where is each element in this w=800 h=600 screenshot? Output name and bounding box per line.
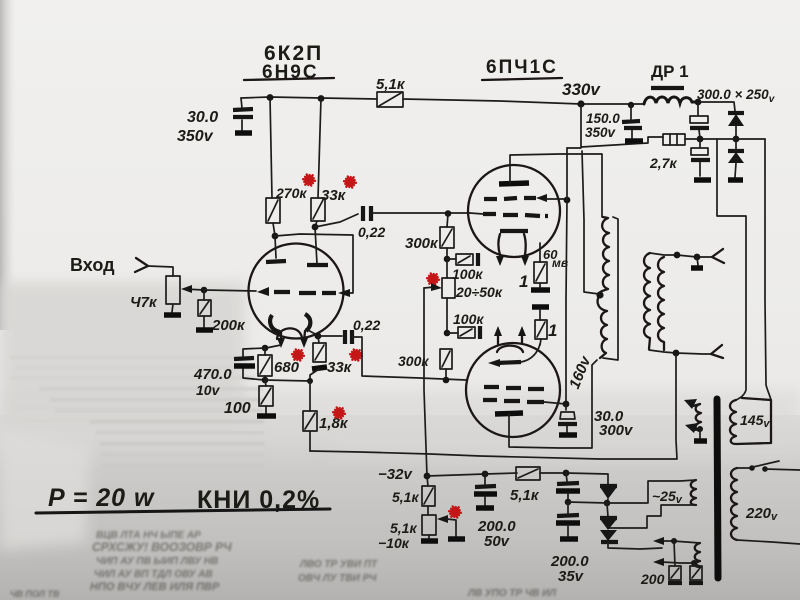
svg-text:ДР 1: ДР 1 <box>651 62 689 81</box>
node after choke <box>695 99 702 106</box>
wire C4 to V3 grid (drop) <box>352 337 466 380</box>
plate bar V3 <box>495 413 523 414</box>
svg-text:1: 1 <box>519 272 528 291</box>
svg-text:0,22: 0,22 <box>353 317 380 333</box>
wire direct-coupling loop <box>275 234 353 293</box>
node cathode2 <box>315 333 322 340</box>
wire 220v top + switch <box>737 467 750 469</box>
wire R8 to 1,8k <box>310 369 319 381</box>
svg-text:ОВЧ ЛУ ТВИ РЧ: ОВЧ ЛУ ТВИ РЧ <box>298 573 377 584</box>
tube V3 envelope <box>466 343 560 437</box>
cathode hooks V1 <box>270 315 280 332</box>
wire B+ center tap feed <box>582 151 599 294</box>
ground stub heater top <box>699 429 701 439</box>
wire secondary top <box>650 253 712 257</box>
potentiometer R19 5,1k <box>422 515 436 535</box>
red asterisk near 1,8k <box>333 407 345 418</box>
svg-text:200к: 200к <box>211 317 246 334</box>
grid dashes V2 <box>483 214 548 216</box>
wire wiper to ground <box>447 519 456 536</box>
ground under C10 <box>476 505 494 511</box>
svg-text:ЛВ УПО ТР ЧВ ИЛ: ЛВ УПО ТР ЧВ ИЛ <box>467 588 557 599</box>
diode D4 <box>607 503 608 517</box>
wire cathode2 to C4 <box>306 329 317 335</box>
node secondary bottom <box>673 350 680 357</box>
wire R5 to plate2 <box>315 221 317 264</box>
svg-text:30.0: 30.0 <box>187 109 218 126</box>
ground stub secondary <box>697 257 698 265</box>
node heater bottom b <box>691 560 697 566</box>
ground under R1 <box>172 304 173 312</box>
heater winding top (left of core) <box>696 404 701 431</box>
flying arrow heater top b <box>694 429 700 430</box>
wiper arrow R19 <box>440 518 447 520</box>
25v winding <box>691 480 696 505</box>
svg-text:100к: 100к <box>453 311 484 327</box>
svg-text:33к: 33к <box>327 359 353 376</box>
plate bar V1a <box>266 261 286 262</box>
node doubler mid (bias) <box>604 500 611 507</box>
plate bar V2 <box>499 183 529 184</box>
arrow into grid of V1 <box>257 287 269 296</box>
resistor R20 5,1k (bias rail) <box>516 467 540 480</box>
resistor R7 100 <box>265 380 266 386</box>
grid dashes V3 <box>484 387 544 389</box>
svg-text:350v: 350v <box>585 125 617 140</box>
svg-text:5,1к: 5,1к <box>392 489 419 505</box>
node secondary top a <box>674 252 681 259</box>
wire 680 node to 1,8k <box>265 380 310 381</box>
underline under 6ПЧ1С <box>482 78 562 80</box>
wire mid node line y139 <box>700 138 765 140</box>
tube V2 envelope <box>468 165 560 257</box>
svg-text:0,22: 0,22 <box>358 224 385 240</box>
svg-text:6ПЧ1С: 6ПЧ1С <box>486 57 558 78</box>
svg-text:5,1к: 5,1к <box>390 520 417 536</box>
capacitor C4 0,22 (to V3 grid) <box>318 335 342 337</box>
ground under C7 <box>559 432 577 438</box>
blob below R8 <box>312 367 327 369</box>
svg-text:ЛВО ТР УВИ ПТ: ЛВО ТР УВИ ПТ <box>299 559 378 570</box>
node screen V3 <box>563 401 570 408</box>
capacitor C3 470.0 10v <box>243 348 265 380</box>
node OPT center tap <box>596 291 603 298</box>
svg-text:50v: 50v <box>484 533 511 550</box>
wire node to 25v top <box>607 502 647 504</box>
node V3 grid wire <box>443 377 450 384</box>
node at C11 <box>563 470 570 477</box>
diode D5 <box>600 530 617 541</box>
resistor R5 33k (plate load V1b) <box>311 198 325 221</box>
wire 220v bottom <box>737 540 800 544</box>
heater arc V1 <box>277 328 302 339</box>
cathode bar V2 <box>500 229 528 233</box>
power transformer 145v winding <box>730 398 771 444</box>
cathode arrow V1b <box>304 331 305 341</box>
arrow into screen V2 <box>536 194 547 202</box>
red asterisk near 680 <box>292 349 304 360</box>
svg-text:НПО ВЧУ ЛЕВ ИЛЯ ПВР: НПО ВЧУ ЛЕВ ИЛЯ ПВР <box>90 581 220 593</box>
ground under R7 <box>257 413 276 419</box>
svg-text:300к: 300к <box>405 235 439 252</box>
transformer core bar <box>717 399 718 578</box>
resistor R9 1,8k <box>309 381 311 411</box>
wire rail to R4 <box>270 97 272 198</box>
wire wiper NFB vertical <box>424 288 427 476</box>
red asterisk near pot <box>427 273 439 284</box>
node bias rail left <box>424 473 431 480</box>
resistor R10 300k <box>440 227 454 248</box>
wire B+ screen line down <box>566 148 567 404</box>
wire C2 to V2 grid <box>371 212 470 214</box>
resistor R18 5,1k <box>427 476 428 486</box>
flying arrow heater bottom a <box>653 537 664 545</box>
cathode hooks V2 <box>499 234 526 255</box>
OPT secondary winding a <box>644 253 650 349</box>
input jack arrow <box>135 258 148 272</box>
resistor R3 5,1k (B+ rail) <box>377 92 403 107</box>
wire D1 to mid node <box>735 126 737 139</box>
cathode arrow V2a <box>496 256 504 266</box>
svg-text:Ч7к: Ч7к <box>130 294 158 311</box>
potentiometer R14 20÷50k <box>446 259 448 278</box>
resistor R4 270k <box>266 198 280 223</box>
ground under R19 <box>421 538 438 544</box>
svg-text:Вход: Вход <box>70 255 115 275</box>
capacitor C9b 300.0 (lower) <box>699 140 701 176</box>
resistor R8 33k (cathode tail) <box>318 336 319 343</box>
node between C11a C11b <box>565 499 572 506</box>
svg-text:P = 20 w: P = 20 w <box>48 484 155 512</box>
red asterisk near bias pot <box>449 506 461 517</box>
plate bar V1b <box>307 263 328 267</box>
svg-text:10v: 10v <box>196 382 221 398</box>
svg-text:−10к: −10к <box>378 535 410 551</box>
resistor R11 300k (V3 grid leak) <box>440 349 452 369</box>
svg-text:680: 680 <box>274 359 300 376</box>
capacitor C7 30.0 300v (screen bypass) <box>565 404 567 410</box>
wire bias rail <box>427 473 608 485</box>
wire V3 plate to OPT bottom <box>509 360 597 448</box>
wire screen V2 to B+ line <box>546 198 567 200</box>
wire secondary bottom <box>649 350 711 354</box>
heater arc V3 <box>497 346 523 352</box>
wire NFB from secondary <box>310 353 677 459</box>
svg-text:300v: 300v <box>599 422 634 439</box>
svg-text:200: 200 <box>640 571 665 587</box>
wire D3 to node <box>607 499 608 503</box>
arrow into grid2 of V1 <box>338 289 350 297</box>
wire wiper to grid <box>204 290 256 291</box>
ground under R2 <box>196 327 213 333</box>
screen dashes V2 <box>484 198 536 199</box>
svg-text:ЧВ ПОЛ ТВ: ЧВ ПОЛ ТВ <box>10 589 60 599</box>
capacitor C10 200.0 50v <box>484 474 486 484</box>
wiper arrow of R1 <box>184 289 204 290</box>
ground under R12 <box>531 287 550 293</box>
svg-text:ЧИЛ АУ ВП ТДЛ ОВУ АВ: ЧИЛ АУ ВП ТДЛ ОВУ АВ <box>94 569 213 580</box>
OPT primary winding <box>598 217 609 358</box>
svg-text:СРХСЖУ! ВООЗОВР РЧ: СРХСЖУ! ВООЗОВР РЧ <box>92 540 232 554</box>
node cathode network top <box>262 345 269 352</box>
capacitor C2 0,22 (to V2 grid) <box>363 206 371 221</box>
svg-text:5,1к: 5,1к <box>376 76 406 93</box>
diode D3 <box>600 484 617 488</box>
node junction at 270k <box>267 94 274 101</box>
svg-text:5,1к: 5,1к <box>510 487 540 504</box>
heater winding bottom <box>695 543 701 567</box>
resistor chain node: 300k V2 grid <box>447 214 448 227</box>
capacitor C11a 200.0 35v <box>566 473 567 481</box>
resistor R15 100k (balance bottom) <box>447 332 458 334</box>
tube V1 envelope <box>249 244 344 339</box>
node at 1,8k top <box>307 378 313 384</box>
svg-text:мв: мв <box>552 256 568 270</box>
node mid chain <box>444 330 451 337</box>
potentiometer R1 47k <box>166 276 180 304</box>
node mid doubler <box>733 136 740 143</box>
wire heater bottom leads <box>662 541 701 567</box>
underline under 6Н9С <box>244 78 334 80</box>
cathode arrow V2b <box>521 256 529 266</box>
node heater bottom a <box>671 538 677 544</box>
red asterisk near lower 33k <box>350 349 362 360</box>
wire doubler branch x765 <box>765 139 771 400</box>
node below R5 <box>312 224 319 231</box>
capacitor C12 200 (heater a) <box>674 541 675 566</box>
capacitor C9a 300.0 (upper) <box>698 102 700 138</box>
capacitor C13 200 (heater b) <box>694 563 695 566</box>
wire grid V2 from C2 <box>470 213 483 214</box>
svg-text:20÷50к: 20÷50к <box>455 284 503 300</box>
wire node to C2 <box>315 214 358 227</box>
wire cathode1 to 680/470 node <box>266 345 281 348</box>
svg-text:−32v: −32v <box>378 466 413 483</box>
red asterisk near 270k <box>303 174 315 185</box>
wire 25v top lead <box>648 480 696 503</box>
220v winding <box>731 468 737 540</box>
wire input to pot <box>148 266 173 276</box>
svg-text:35v: 35v <box>558 568 585 585</box>
cathode bar V3 with arrow <box>496 362 521 363</box>
svg-text:330v: 330v <box>562 80 601 99</box>
svg-text:1: 1 <box>548 321 557 340</box>
resistor R6 680 <box>264 348 266 355</box>
capacitor C8 150.0 350v <box>631 105 632 138</box>
wire 25v bottom lead <box>609 505 696 528</box>
ground under C11b <box>560 536 578 542</box>
ground under R19 wiper <box>448 536 465 542</box>
resistor R13 100k (balance top) <box>447 258 456 260</box>
svg-text:150.0: 150.0 <box>586 111 620 126</box>
wire doubler branch x716 <box>717 139 746 400</box>
capacitor C1 30.0 350v <box>241 98 242 131</box>
node at 150.0 cap <box>628 102 634 108</box>
resistor R17 2,7k <box>567 104 663 148</box>
diode D1 (doubler top) <box>728 111 744 115</box>
cathode arrow V1a <box>280 332 282 341</box>
svg-text:100к: 100к <box>452 266 483 282</box>
node below R4 <box>272 233 279 240</box>
node secondary top b <box>694 254 701 261</box>
svg-text:2,7к: 2,7к <box>649 155 677 171</box>
node 330v <box>577 100 584 107</box>
grid dashes V1 <box>274 292 336 293</box>
node below 680 <box>262 377 269 384</box>
svg-text:100: 100 <box>224 400 251 417</box>
output terminal fork top <box>712 249 724 263</box>
ground under C8 <box>625 138 643 144</box>
output terminal fork bottom <box>711 345 723 358</box>
svg-text:350v: 350v <box>177 128 214 145</box>
node below 300k <box>444 256 451 263</box>
svg-text:33к: 33к <box>321 187 347 204</box>
screen dashes V3 <box>483 400 544 402</box>
node screen V2 <box>564 197 571 204</box>
wire node to C11 mid <box>568 502 607 503</box>
node heater top <box>697 426 703 432</box>
svg-text:ЧИП АУ ПВ ЫИП ЛВУ НВ: ЧИП АУ ПВ ЫИП ЛВУ НВ <box>96 556 218 567</box>
wire D2 lead <box>735 139 736 177</box>
svg-text:300к: 300к <box>398 353 429 369</box>
wire R4 to plate1 <box>273 223 276 258</box>
node grid chain top <box>445 210 452 217</box>
ground under D2 <box>728 177 743 183</box>
underline under P=20w <box>36 509 330 513</box>
node wiper junction <box>201 287 208 294</box>
wire OPT side line <box>603 217 618 360</box>
ground under C1 <box>235 130 252 136</box>
heater arrows V3 <box>498 334 522 344</box>
wire rail to R5 <box>318 98 321 198</box>
wire V2 plate to OPT <box>510 154 602 217</box>
OPT secondary winding b <box>658 257 664 350</box>
svg-text:270к: 270к <box>275 185 307 201</box>
diode D2 (doubler bottom) <box>728 149 744 153</box>
wire screen V3 to node <box>544 402 566 404</box>
wire top B+ rail <box>241 97 735 111</box>
node junction at 33k <box>318 95 325 102</box>
red asterisk near 33k <box>344 176 356 187</box>
flying arrow heater top a <box>693 404 700 406</box>
resistor R2 200k <box>203 290 205 300</box>
svg-text:1,8к: 1,8к <box>319 415 349 432</box>
wiper arrow R14 <box>424 287 434 288</box>
node at C10 <box>482 471 489 478</box>
resistor R12 1 (cathode V2) <box>539 243 541 262</box>
wire cathode V3 to R16 <box>521 344 540 362</box>
capacitor C11b 200.0 35v <box>567 503 569 513</box>
node between C9a C9b <box>697 136 704 143</box>
resistor R16 1 (cathode V3) <box>532 304 549 310</box>
svg-text:470.0: 470.0 <box>193 366 232 383</box>
wire D5 bottom <box>608 542 662 549</box>
choke DR1 <box>651 86 684 90</box>
flying arrow heater bottom b <box>653 558 664 566</box>
ground under C9b <box>694 177 711 183</box>
